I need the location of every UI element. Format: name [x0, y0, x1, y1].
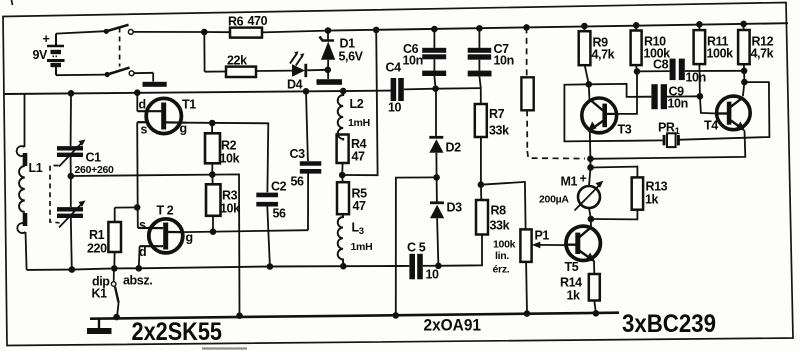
junction T2 drain on bus [136, 265, 143, 272]
svg-text:C 5: C 5 [407, 241, 426, 255]
wire bottom rail [90, 313, 619, 319]
svg-text:33k: 33k [489, 124, 509, 138]
capacitor C9 10n [651, 84, 700, 110]
C1 gang dashed link [50, 166, 60, 223]
wire emitter node to meter node [589, 159, 591, 168]
LED D4 [287, 51, 328, 91]
wire T4 collector loop to PR1 right [677, 82, 769, 140]
svg-text:T5: T5 [565, 260, 579, 274]
ground symbol (main) [87, 318, 112, 334]
switch K2a (battery top pole) [56, 25, 204, 35]
junction C1 bottom on bus [69, 266, 76, 273]
svg-text:4,7k: 4,7k [592, 48, 615, 62]
junction emitters [587, 156, 594, 163]
junction L3 bottom on bus [340, 263, 347, 270]
wire T3 emitter down [589, 132, 592, 159]
junction R4/R5 [339, 172, 346, 179]
svg-text:220: 220 [87, 242, 107, 256]
junction meter bottom node [588, 216, 595, 223]
svg-text:1k: 1k [567, 289, 581, 303]
potentiometer P1 100k lin [493, 229, 567, 314]
wire T4 emitter down/left [590, 131, 745, 159]
svg-text:C8: C8 [653, 58, 669, 72]
svg-text:absz.: absz. [123, 274, 152, 288]
junction C6/D2 node [432, 85, 439, 92]
svg-text:260+260: 260+260 [75, 164, 115, 176]
svg-text:3xBC239: 3xBC239 [622, 310, 716, 338]
svg-text:47: 47 [352, 150, 366, 164]
svg-text:56: 56 [291, 175, 305, 189]
resistor R6 470 [204, 14, 328, 38]
resistor 22k [205, 54, 292, 78]
svg-text:L1: L1 [29, 161, 43, 175]
svg-text:10: 10 [426, 268, 440, 282]
inductor L3 1mH [338, 214, 373, 266]
capacitor C7 10n [468, 28, 514, 88]
junction C7 top rail [476, 25, 483, 32]
junction C1 top [68, 90, 75, 97]
junction D1 top [325, 27, 332, 34]
diode D2 [429, 89, 461, 178]
svg-text:s: s [139, 218, 146, 232]
meter M1 200uA [539, 168, 603, 220]
switch K2b (battery bottom pole) [56, 68, 153, 82]
wire R1 top to source line [115, 206, 138, 208]
wire T4 collector drop [743, 82, 745, 96]
resistor R7 33k [475, 88, 509, 185]
svg-text:d: d [139, 98, 146, 112]
resistor R5 47 [337, 175, 367, 214]
svg-text:lin.: lin. [495, 250, 509, 262]
svg-text:10n: 10n [686, 71, 706, 85]
wire R12 to T4 collector [743, 71, 745, 82]
svg-text:R13: R13 [646, 180, 668, 194]
junction top rail decoupling [373, 27, 380, 34]
wire T3 collector to PR1 left [564, 84, 662, 141]
wire T1 source chain [136, 122, 139, 228]
junction P1 bottom rail [524, 310, 531, 317]
junction C5 right node [435, 263, 442, 270]
svg-text:R3: R3 [222, 189, 238, 203]
dashed screen line with box [521, 24, 585, 159]
junction R1 bottom on bus [111, 265, 118, 272]
capacitor C5 10 [407, 241, 439, 282]
junction C6 top rail [431, 26, 438, 33]
junction R2 top [209, 120, 216, 127]
junction source line [134, 204, 141, 211]
svg-text:100k: 100k [493, 239, 516, 251]
svg-text:2x2SK55: 2x2SK55 [132, 318, 223, 346]
junction meter top node [587, 164, 594, 171]
junction T3 collector node [586, 81, 593, 88]
svg-text:R6: R6 [228, 15, 244, 29]
resistor R8 33k [438, 181, 509, 265]
junction R3 bottom on gate wire [210, 228, 217, 235]
svg-text:+: + [43, 32, 50, 46]
transistor T4 [704, 96, 750, 132]
svg-text:D2: D2 [446, 141, 462, 155]
svg-text:10: 10 [388, 101, 402, 115]
svg-text:4,7k: 4,7k [751, 47, 774, 61]
junction C3 top [303, 88, 310, 95]
capacitor C6 10n [403, 29, 447, 89]
wire R11 node to T4 base [700, 96, 717, 113]
svg-text:10n: 10n [668, 97, 688, 111]
switch gang dashed link [119, 28, 121, 67]
svg-text:10k: 10k [220, 202, 240, 216]
svg-text:33k: 33k [490, 219, 510, 233]
resistor R4 47 [337, 135, 367, 176]
svg-text:s: s [141, 123, 148, 137]
capacitor C8 10n [637, 58, 744, 85]
inductor L1 [17, 94, 43, 270]
svg-text:R1: R1 [89, 228, 105, 242]
svg-text:100k: 100k [707, 47, 734, 61]
svg-text:D3: D3 [447, 201, 463, 215]
svg-text:1k: 1k [645, 193, 659, 207]
wire T2 gate to R3/C3 [185, 230, 308, 232]
junction C1 mid [68, 173, 75, 180]
wire C1 mid bus to ground drop [71, 174, 240, 315]
svg-text:1mH: 1mH [348, 117, 370, 129]
chassis ground (zener) [317, 79, 343, 85]
svg-text:10n: 10n [494, 54, 514, 68]
transistor T3 [582, 84, 632, 136]
JFET T1 [137, 93, 196, 137]
resistor R1 220 [87, 208, 121, 269]
wire C6 node to R7/C7 node [436, 87, 481, 90]
resistor R3 10k [206, 175, 240, 232]
svg-text:C1: C1 [86, 151, 102, 165]
svg-text:2xOA91: 2xOA91 [424, 316, 482, 335]
crystal PR1 [658, 121, 681, 148]
resistor R12 4,7k [738, 21, 774, 71]
chassis ground (switch pole) [143, 82, 167, 87]
junction R10/C8/base node [634, 68, 641, 75]
junction R2/R3 [209, 171, 216, 178]
svg-text:C2: C2 [271, 180, 287, 194]
wire main rail y=92 [5, 91, 392, 94]
svg-text:200µA: 200µA [539, 194, 569, 206]
svg-text:érz.: érz. [493, 264, 510, 276]
junction R11/C9/base node [697, 93, 704, 100]
zener D1 5,6V [320, 31, 364, 79]
svg-text:R7: R7 [489, 107, 505, 121]
junction bus bottom-rail drop [236, 312, 243, 319]
svg-text:R14: R14 [560, 276, 582, 290]
wire R4/R5 junction to top rail [342, 30, 377, 175]
capacitor C4 10 [386, 61, 436, 115]
junction R14 bottom rail [593, 310, 600, 317]
switch K1 dip/absz [92, 268, 153, 317]
svg-text:5,6V: 5,6V [339, 50, 364, 64]
resistor R11 100k [694, 21, 734, 96]
svg-text:R2: R2 [221, 139, 237, 153]
node junction (switch to R6/22k) [201, 29, 208, 36]
variable capacitor C1 (top section) [57, 93, 114, 176]
svg-text:22k: 22k [227, 54, 247, 68]
svg-text:K1: K1 [92, 287, 108, 301]
svg-text:10n: 10n [403, 54, 423, 68]
svg-text:C3: C3 [290, 147, 306, 161]
resistor R14 1k [560, 261, 600, 313]
junction D2/D3 ground on rail [393, 312, 400, 319]
svg-text:PR1: PR1 [658, 121, 681, 138]
svg-text:56: 56 [273, 207, 287, 221]
svg-text:47: 47 [353, 199, 367, 213]
battery BT 9V [33, 32, 65, 75]
variable capacitor C1 (bottom section) [57, 176, 86, 270]
svg-text:P1: P1 [535, 229, 550, 243]
junction D2/D3 mid [433, 174, 440, 181]
transistor T5 [565, 219, 601, 274]
wire ground bus y=268 [27, 266, 410, 270]
capacitor C3 56 [290, 91, 322, 230]
svg-text:+: + [580, 172, 587, 186]
resistor R13 1k [591, 167, 668, 220]
wire D2/D3 mid to ground drop [396, 177, 437, 315]
wire (junction down to 22k) [203, 32, 205, 72]
junction L2 top [340, 88, 347, 95]
svg-text:T1: T1 [182, 98, 196, 112]
resistor R9 4,7k [579, 23, 615, 85]
svg-text:L2: L2 [350, 97, 364, 111]
wire T3 base to R10/C8 node [616, 71, 637, 114]
svg-text:R8: R8 [491, 204, 507, 218]
svg-text:d: d [139, 245, 146, 259]
svg-text:10k: 10k [220, 152, 240, 166]
resistor R2 10k [205, 123, 240, 175]
svg-text:g: g [180, 122, 187, 136]
junction C2 bottom on bus [267, 263, 274, 270]
svg-text:L3: L3 [352, 221, 364, 238]
wire R7/R8 node to P1 top [481, 182, 526, 230]
svg-text:1mH: 1mH [351, 241, 373, 253]
svg-text:T4: T4 [704, 119, 718, 133]
junction T4 collector node [741, 79, 748, 86]
svg-text:C4: C4 [386, 61, 402, 75]
svg-text:9V: 9V [33, 48, 49, 62]
svg-text:T3: T3 [618, 123, 632, 137]
junction C8 right node [741, 68, 748, 75]
junction T1 drain [134, 89, 141, 96]
wire top rail continuation [328, 23, 788, 30]
wire T1 gate to R2/C2 [187, 123, 268, 193]
svg-text:D1: D1 [340, 37, 356, 51]
wire T3 collector to C9 left [589, 84, 652, 97]
capacitor C2 56 [256, 180, 286, 267]
JFET T2 [138, 204, 193, 269]
svg-text:M1: M1 [561, 175, 578, 189]
diode D3 [430, 177, 462, 265]
svg-text:D4: D4 [287, 78, 303, 92]
inductor L2 1mH [338, 91, 370, 141]
svg-text:T 2: T 2 [157, 204, 174, 218]
svg-text:470: 470 [248, 14, 268, 28]
resistor R10 100k [631, 22, 671, 71]
junction K1 bottom rail [113, 314, 120, 321]
